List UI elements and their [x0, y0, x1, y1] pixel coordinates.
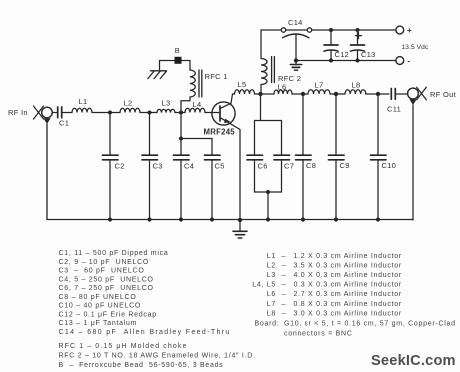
capacitor C5 [205, 155, 221, 160]
svg-text:L3: L3 [162, 99, 171, 108]
svg-text:C1: C1 [59, 119, 69, 128]
wire C12 top drop [330, 30, 332, 45]
svg-text:Board:: Board: [255, 320, 280, 327]
inductor L6 [274, 90, 292, 94]
svg-text:–: – [282, 253, 287, 260]
choke RFC2 [261, 57, 274, 85]
svg-text:+: + [407, 26, 412, 35]
svg-text:C2, 9 – 10 pF UNELCO: C2, 9 – 10 pF UNELCO [59, 259, 150, 266]
ground (emitter) [233, 220, 247, 238]
node junction C9 tap [334, 92, 338, 96]
svg-text:C12: C12 [335, 50, 350, 59]
terminal + 13.5 Vdc [396, 26, 404, 34]
svg-text:C13: C13 [361, 50, 376, 59]
node junction bus C2 [108, 217, 112, 221]
wire C5 drop [211, 139, 213, 156]
node junction C5 branch [179, 137, 183, 141]
svg-text:C8: C8 [306, 161, 316, 170]
svg-text:G10, εr < 5, t = 0.16 cm, 57 g: G10, εr < 5, t = 0.16 cm, 57 gm, Copper-… [284, 320, 456, 327]
svg-text:C8 – 80 pF UNELCO: C8 – 80 pF UNELCO [59, 294, 137, 301]
node junction bus C5 [210, 217, 214, 221]
svg-text:–: – [282, 272, 287, 279]
capacitor C1 [58, 107, 62, 118]
svg-text:RFC 1 – 0.15 μH Molded choke: RFC 1 – 0.15 μH Molded choke [59, 343, 188, 350]
svg-text:3.5 X 0.3 cm Airline Inductor: 3.5 X 0.3 cm Airline Inductor [294, 263, 402, 270]
capacitor C14 feed-thru [281, 28, 396, 61]
svg-text:C14 – 680 pF Allen Bradley Fe: C14 – 680 pF Allen Bradley Feed-Thru [59, 329, 231, 336]
wire RFC1 to node3 [181, 97, 190, 113]
wire L2 to node2 [140, 112, 157, 114]
wire L3 to node3 [175, 112, 185, 114]
wire C9 drop [335, 94, 337, 155]
transistor Q1 MRF245 [212, 102, 235, 125]
capacitor C2 [103, 155, 119, 160]
svg-text:C5: C5 [215, 162, 225, 171]
wire C10 to ground bus [377, 160, 379, 220]
capacitor C8 [296, 155, 312, 160]
wire C5 to ground bus [211, 160, 213, 220]
svg-text:0.3 X 0.3 cm Airline Inductor: 0.3 X 0.3 cm Airline Inductor [294, 282, 402, 289]
wire C6C7 top bar [255, 120, 282, 122]
wire C13 top drop [357, 30, 359, 45]
wire C3 drop [149, 113, 151, 156]
wire L7 to node6 [330, 93, 345, 95]
node junction bus C4 [179, 217, 183, 221]
wire RFC2 top to C14 [261, 30, 281, 59]
svg-text:13.5 Vdc: 13.5 Vdc [402, 44, 429, 51]
svg-text:C4: C4 [184, 162, 194, 171]
svg-text:B – Ferroxcube Bead 56-590-: B – Ferroxcube Bead 56-590-65, 3 Beads [59, 362, 224, 369]
capacitor C6 [247, 155, 263, 160]
wire C7 drop [281, 121, 283, 156]
node junction C12 minus rail [329, 59, 333, 63]
node junction C10/C11 tap [376, 92, 380, 96]
svg-text:L7: L7 [315, 81, 324, 90]
connector J1 RF In [34, 106, 53, 124]
wire C8 drop [302, 94, 304, 155]
value list capacitors [59, 250, 231, 336]
svg-text:C11: C11 [387, 105, 401, 114]
wire L6 to node5 [292, 93, 308, 95]
svg-text:-: - [408, 57, 411, 66]
svg-text:RF In: RF In [8, 108, 28, 117]
svg-text:L2: L2 [267, 263, 276, 270]
capacitor C4 [174, 155, 190, 160]
wire ground to bead B [160, 60, 175, 62]
wire L5 to node4 [255, 93, 275, 95]
svg-text:C14: C14 [288, 18, 303, 27]
wire C6C7 to ground bus [267, 192, 269, 220]
node junction C8 tap [301, 92, 305, 96]
value list chokes [59, 343, 256, 369]
wire L1 to node1 [92, 112, 120, 114]
ground (supply return) [290, 61, 301, 71]
node junction RFC1/C4 tap [179, 111, 183, 115]
svg-text:C2: C2 [115, 162, 125, 171]
wire C6 lower [254, 160, 256, 192]
node junction bus C3 [147, 217, 151, 221]
svg-text:L2: L2 [124, 99, 133, 108]
svg-text:L7: L7 [267, 301, 276, 308]
svg-text:3.0 X 0.3 cm Airline Inductor: 3.0 X 0.3 cm Airline Inductor [294, 310, 402, 317]
svg-text:L5: L5 [238, 80, 247, 89]
wire C2 drop [109, 113, 111, 156]
capacitor C12 [324, 45, 338, 51]
svg-text:C12 – 0.1 μF Erie Redcap: C12 – 0.1 μF Erie Redcap [59, 311, 157, 318]
wire C11 to connector [395, 93, 407, 95]
svg-text:–: – [282, 263, 287, 270]
wire C6C7 bottom bar [255, 191, 282, 193]
svg-text:L4, L5: L4, L5 [252, 282, 276, 289]
svg-text:C6, 7 – 250 pF UNELCO: C6, 7 – 250 pF UNELCO [59, 285, 154, 292]
svg-text:B: B [175, 46, 180, 55]
wire emitter drop [231, 124, 240, 219]
svg-text:–: – [282, 310, 287, 317]
svg-text:C1, 11 – 500 pF Dipped mica: C1, 11 – 500 pF Dipped mica [59, 250, 169, 257]
node junction emitter at bus [238, 218, 242, 222]
choke RFC1 [190, 70, 202, 97]
svg-text:–: – [282, 291, 287, 298]
svg-text:–: – [282, 301, 287, 308]
wire connector to C1 [52, 112, 57, 114]
svg-text:4.0 X 0.3 cm Airline Inductor: 4.0 X 0.3 cm Airline Inductor [294, 272, 402, 279]
svg-text:0.8 X 0.3 cm Airline Inductor: 0.8 X 0.3 cm Airline Inductor [294, 301, 402, 308]
node junction bus C10 [376, 217, 380, 221]
wire collector rail [233, 93, 235, 95]
chassis ground (bead branch) [148, 61, 167, 79]
svg-text:RFC 1: RFC 1 [205, 72, 228, 81]
svg-text:MRF245: MRF245 [204, 128, 236, 137]
inductor L2 [120, 108, 140, 112]
capacitor C13 [350, 45, 364, 51]
node junction C2 tap [108, 111, 112, 115]
capacitor C9 [329, 155, 345, 160]
wire C2 to ground bus [109, 160, 111, 220]
wire ground bus [47, 124, 413, 220]
wire C6 drop [254, 121, 256, 156]
wire C3 to ground bus [149, 160, 151, 220]
svg-text:C10: C10 [382, 161, 397, 170]
svg-text:RF Out: RF Out [430, 90, 457, 99]
node junction C6C7 bottom [266, 190, 270, 194]
ferrite bead B [175, 57, 182, 64]
wire bead to RFC1 [182, 61, 191, 71]
inductor L5 [235, 90, 255, 94]
node junction bus C9 [334, 217, 338, 221]
inductor L3 [157, 109, 175, 112]
terminal - 13.5 Vdc [396, 57, 404, 65]
svg-text:C6: C6 [258, 162, 268, 171]
wire minus rail [296, 60, 396, 62]
capacitor C10 [371, 155, 387, 160]
svg-text:C9: C9 [340, 161, 350, 170]
svg-text:L3: L3 [267, 272, 276, 279]
node junction C14 ground [294, 58, 298, 62]
node junction C13 minus rail [356, 59, 360, 63]
wire C4 to ground bus [180, 160, 182, 220]
svg-text:L1: L1 [79, 97, 88, 106]
svg-text:2.7 X 0.3 cm Airline Inductor: 2.7 X 0.3 cm Airline Inductor [294, 291, 402, 298]
capacitor C3 [142, 155, 158, 160]
capacitor C11 [391, 89, 395, 100]
wire C13 bottom drop [357, 51, 359, 61]
svg-text:L4: L4 [193, 100, 202, 109]
svg-text:L6: L6 [267, 291, 276, 298]
wire L4 to Q1 base [205, 112, 219, 114]
node junction C12 plus rail [329, 28, 333, 32]
svg-text:1.2 X 0.3 cm Airline Inductor: 1.2 X 0.3 cm Airline Inductor [294, 253, 402, 260]
svg-text:–: – [282, 282, 287, 289]
svg-text:L1: L1 [267, 253, 276, 260]
wire C9 to ground bus [335, 160, 337, 220]
inductor L4 [185, 108, 205, 112]
capacitor C13 polarity + [356, 33, 362, 39]
svg-text:L8: L8 [267, 310, 276, 317]
wire C10 drop [377, 94, 379, 155]
wire C7 lower [281, 160, 283, 192]
inductor L1 [72, 108, 92, 112]
svg-text:C3: C3 [153, 162, 163, 171]
svg-text:L8: L8 [352, 81, 361, 90]
svg-text:C4, 5 – 250 pF UNELCO: C4, 5 – 250 pF UNELCO [59, 276, 154, 283]
value list inductors [252, 253, 456, 337]
wire C1 to L1 [62, 112, 72, 114]
wire C6C7 feed drop [260, 94, 262, 121]
svg-text:RFC 2 – 10 T NO. 18 AWG Enamel: RFC 2 – 10 T NO. 18 AWG Enameled Wire, 1… [59, 353, 256, 360]
svg-text:connectors = BNC: connectors = BNC [284, 330, 353, 337]
wire RF Out shield to bus [412, 105, 414, 220]
wire L8 to node7 [366, 93, 389, 95]
svg-text:L6: L6 [278, 83, 287, 92]
wire C4 drop upper [180, 113, 182, 156]
svg-text:C13 – 1 μF Tantalum: C13 – 1 μF Tantalum [59, 320, 138, 327]
svg-text:C7: C7 [284, 162, 294, 171]
svg-text:C3 – 60 pF UNELCO: C3 – 60 pF UNELCO [59, 268, 145, 275]
node junction C13 plus rail [356, 28, 360, 32]
wire C12 bottom drop [330, 51, 332, 61]
capacitor C7 [274, 155, 290, 160]
inductor L8 [345, 90, 366, 94]
wire C8 to ground bus [302, 160, 304, 220]
wire C5 branch horizontal [181, 138, 212, 140]
wire RFC2 bottom [260, 85, 262, 95]
svg-text:C10 – 40 pF UNELCO: C10 – 40 pF UNELCO [59, 303, 142, 310]
wire collector riser [231, 94, 233, 103]
connector J2 RF Out [408, 87, 427, 105]
node junction collector network [258, 92, 262, 96]
node junction C3 tap [148, 111, 152, 115]
node junction bus C8 [301, 217, 305, 221]
inductor L7 [308, 90, 330, 94]
node junction bus C6C7 [266, 217, 270, 221]
svg-text:SeekIC.com: SeekIC.com [371, 353, 456, 369]
